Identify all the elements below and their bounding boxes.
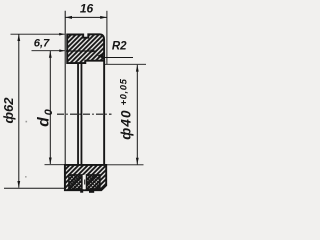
svg-text:+0,05: +0,05 [119, 78, 130, 105]
svg-text:6,7: 6,7 [34, 38, 50, 50]
svg-text:ф62: ф62 [1, 97, 16, 124]
svg-text:ф40: ф40 [119, 109, 134, 140]
svg-text:R2: R2 [112, 41, 127, 53]
svg-text:16: 16 [80, 2, 94, 16]
